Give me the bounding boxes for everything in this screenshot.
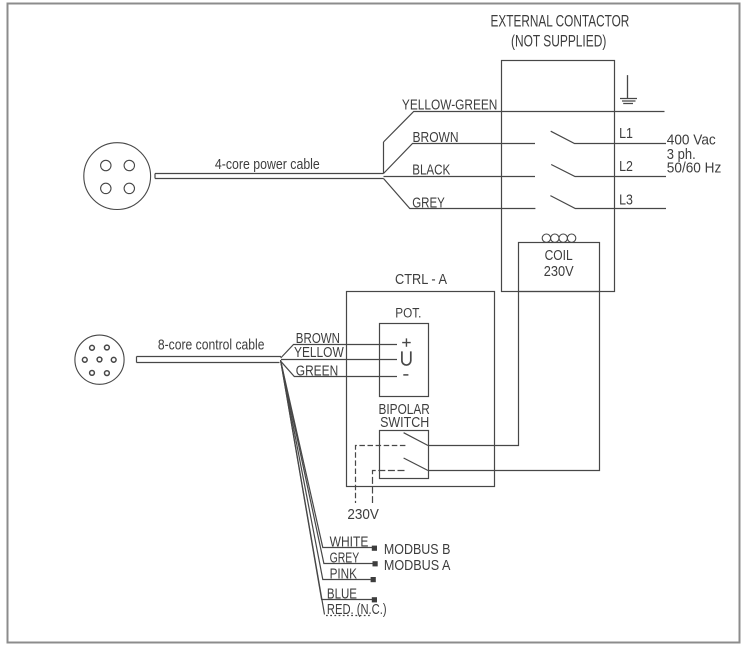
svg-text:YELLOW-GREEN: YELLOW-GREEN	[402, 97, 498, 114]
svg-text:230V: 230V	[347, 506, 379, 523]
svg-text:L3: L3	[619, 191, 633, 208]
svg-text:MODBUS A: MODBUS A	[384, 557, 451, 574]
svg-text:COIL: COIL	[545, 247, 573, 264]
svg-text:PINK: PINK	[330, 566, 357, 583]
svg-text:L2: L2	[619, 158, 633, 175]
svg-text:MODBUS B: MODBUS B	[384, 541, 451, 558]
svg-text:230V: 230V	[544, 263, 574, 280]
svg-text:WHITE: WHITE	[330, 534, 369, 551]
svg-text:GREY: GREY	[412, 194, 445, 211]
svg-text:YELLOW: YELLOW	[294, 344, 344, 361]
svg-text:8-core control cable: 8-core control cable	[158, 336, 265, 353]
svg-text:BLACK: BLACK	[412, 162, 450, 179]
svg-text:L1: L1	[619, 125, 633, 142]
svg-text:4-core power cable: 4-core power cable	[215, 156, 320, 173]
svg-text:50/60 Hz: 50/60 Hz	[667, 160, 722, 177]
svg-text:SWITCH: SWITCH	[380, 414, 429, 431]
svg-text:POT.: POT.	[395, 306, 421, 321]
svg-text:GREY: GREY	[330, 550, 360, 567]
svg-text:RED. (N.C.): RED. (N.C.)	[327, 601, 387, 618]
svg-text:CTRL - A: CTRL - A	[395, 271, 447, 288]
svg-text:BROWN: BROWN	[413, 129, 459, 146]
svg-text:(NOT SUPPLIED): (NOT SUPPLIED)	[511, 33, 606, 51]
svg-text:GREEN: GREEN	[296, 363, 338, 380]
svg-text:EXTERNAL CONTACTOR: EXTERNAL CONTACTOR	[491, 12, 630, 30]
